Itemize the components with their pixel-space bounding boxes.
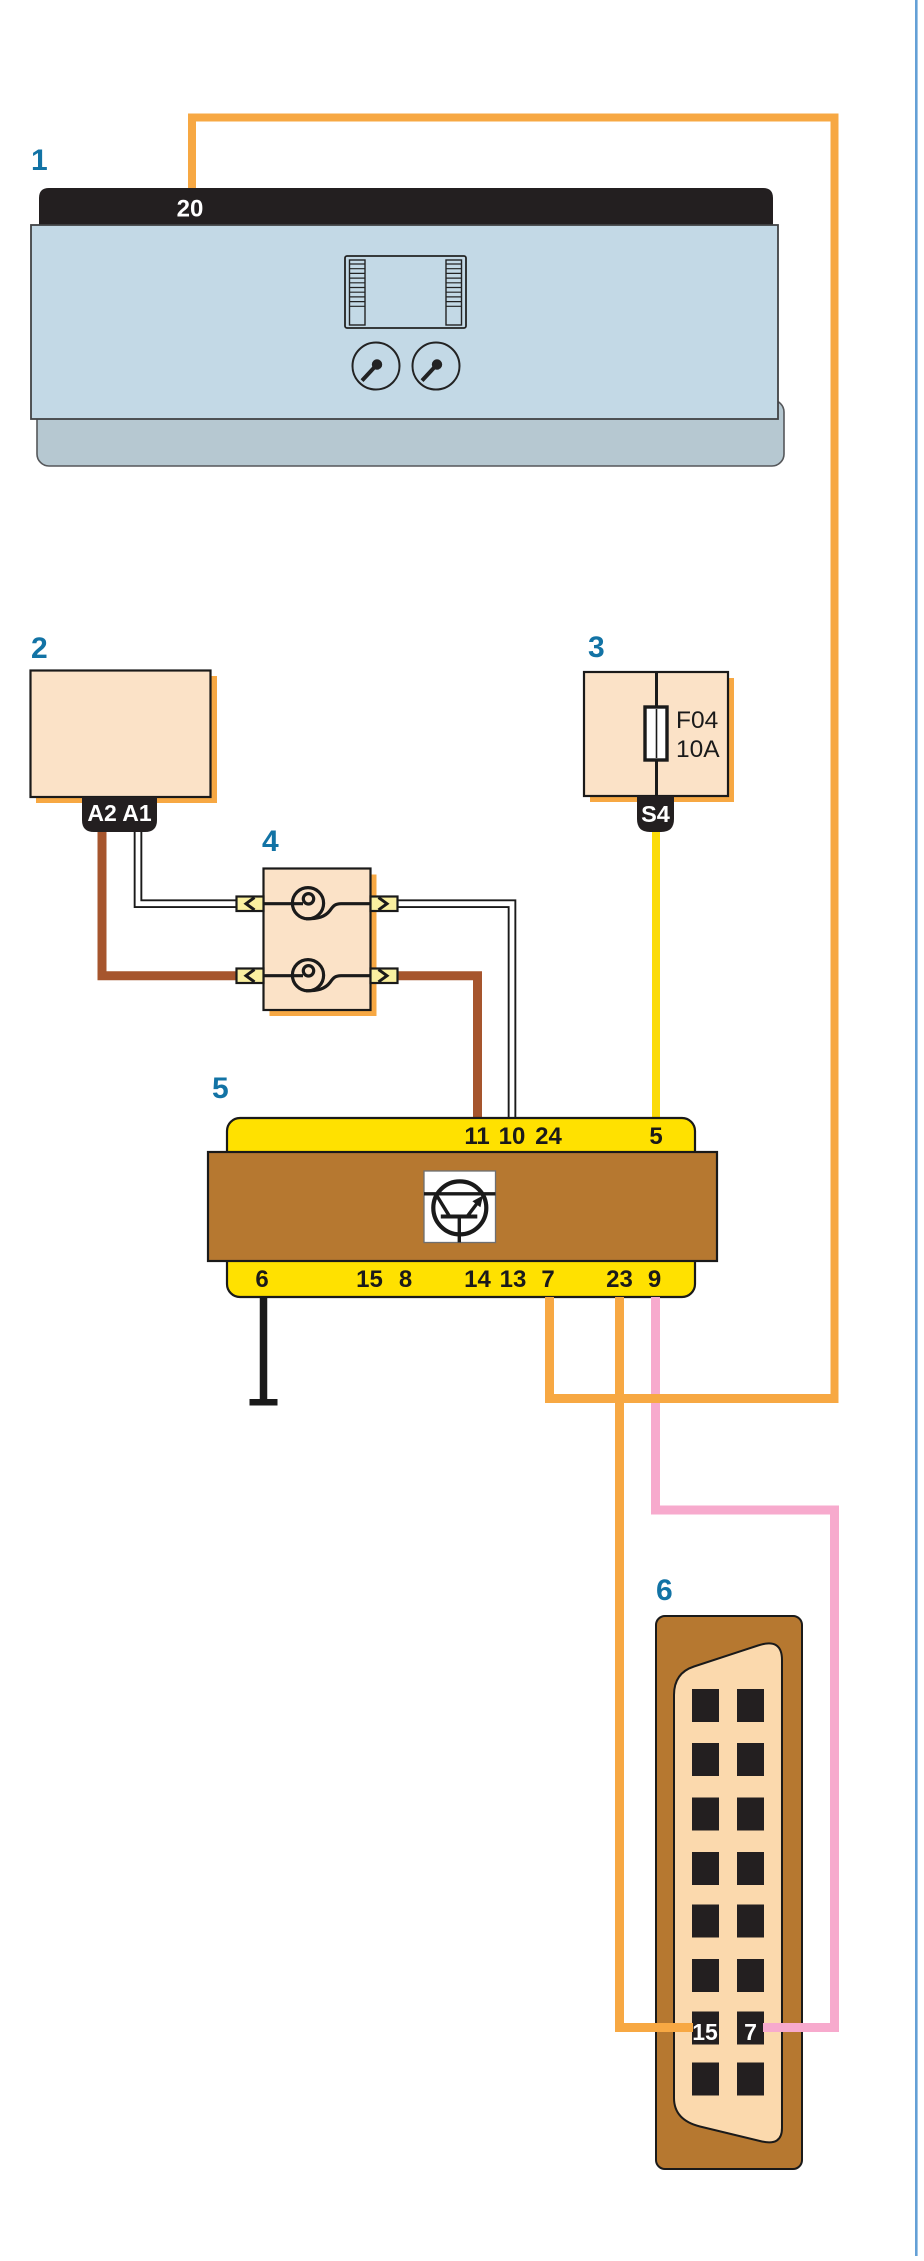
svg-text:7: 7 [541,1266,554,1293]
pin numbers bottom row [255,1266,661,1293]
svg-text:10A: 10A [676,736,720,763]
component 4 coil box [264,869,371,1011]
wire white: A1 to coil box left upper tab [138,820,240,904]
svg-text:S4: S4 [641,801,670,827]
component 4 shadow [270,875,377,1017]
component 1 instrument cluster: connector bar pin 20 [39,188,773,226]
svg-text:1: 1 [31,144,48,177]
component 3 fusebox [584,672,728,796]
wire orange: pin 23 to diagnostic pin 15 [620,1297,694,2028]
svg-text:20: 20 [177,196,204,223]
svg-text:5: 5 [212,1072,229,1105]
gauge icon left [353,343,400,390]
svg-text:4: 4 [262,825,279,858]
component 5 connector strip (yellow) [227,1118,695,1297]
component 5 body (brown) [208,1152,717,1261]
tab left lower with chevron [237,969,264,984]
connector pins grid [692,1689,764,2096]
svg-text:6: 6 [255,1266,268,1293]
connector tab A2 A1 of component 2 [82,797,157,832]
svg-text:3: 3 [588,631,605,664]
svg-text:10: 10 [499,1123,526,1150]
ground bar [250,1399,278,1406]
component 2 box [31,671,211,798]
wire yellow: S4 to pin 5 [652,830,660,1120]
svg-text:5: 5 [649,1123,662,1150]
component 1 body [31,225,778,419]
coil upper [264,888,371,919]
component 1 base plinth [37,400,784,466]
tab left upper with chevron [237,897,264,912]
svg-text:11: 11 [464,1123,489,1150]
wire orange: pin 7 to splice with battery feed [550,1297,839,1399]
svg-text:15: 15 [692,2019,718,2045]
display icon frame [345,256,466,328]
svg-text:A2 A1: A2 A1 [87,800,152,826]
tab right lower with chevron [371,969,398,984]
wire black ground from pin 6 [260,1297,268,1399]
transistor symbol [424,1181,496,1242]
component 6 inner face [674,1643,782,2142]
page right border line [915,0,918,2256]
svg-text:8: 8 [399,1266,412,1293]
pin numbers top row [464,1123,662,1150]
fuse F04 [645,707,667,760]
svg-text:9: 9 [648,1266,661,1293]
coil lower [264,960,371,991]
svg-text:24: 24 [535,1123,562,1150]
connector tab S4 of component 3 [637,796,674,832]
svg-text:6: 6 [656,1574,673,1607]
gauge icon right [413,343,460,390]
svg-text:15: 15 [356,1266,383,1293]
display icon left bar [350,260,366,325]
wire white: coil box right upper tab to pin 10 [394,904,512,1120]
svg-text:2: 2 [31,632,48,665]
svg-text:7: 7 [744,2019,757,2045]
component 2 shadow [36,676,217,803]
wire brown: coil box right lower tab to pin 11 [394,976,478,1120]
wire pink: pin 9 to diagnostic pin 7 [656,1297,835,2028]
fuse wire vertical [655,672,658,796]
wire brown: A2 to coil box left lower tab [102,820,240,976]
component 3 shadow [590,678,734,802]
wire orange: cluster pin 20 up, across, down right side to splice [192,118,835,1404]
svg-text:23: 23 [606,1266,633,1293]
svg-text:13: 13 [500,1266,527,1293]
tab right upper with chevron [371,897,398,912]
display icon right bar [446,260,462,325]
svg-text:F04: F04 [676,707,718,734]
component 6 diagnostic socket body [656,1616,802,2169]
transistor symbol box [424,1171,496,1243]
svg-text:14: 14 [464,1266,491,1293]
